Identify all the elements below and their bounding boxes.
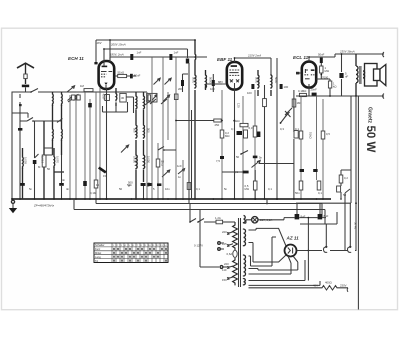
cap 1nF b [169,54,172,60]
svg-text:5n: 5n [29,187,33,191]
secondary windings [244,216,246,286]
wire antenna to switch [26,87,32,92]
tube ECH11 [99,40,115,199]
svg-text:nF: nF [345,75,349,79]
bottom connectors row field coil plugs [330,250,357,252]
svg-text:0,1MΩ: 0,1MΩ [298,89,306,93]
extra vertical [182,160,184,199]
svg-text:400Ω: 400Ω [325,281,332,285]
svg-text:0,6A: 0,6A [227,252,233,256]
tube left pin drop [99,88,101,199]
table [94,243,168,263]
svg-text:0,005: 0,005 [24,157,28,164]
svg-text:88V: 88V [218,80,223,84]
osc trimmer arrow [121,145,129,153]
pickup terminals [218,242,221,245]
EBF left small caps [222,84,226,199]
IF2 coil top [194,40,197,74]
cap left bottom [20,183,25,186]
svg-text:1n: 1n [178,175,182,179]
svg-text:1M: 1M [80,84,85,88]
svg-text:1,2A: 1,2A [215,216,221,220]
svg-text:0,3: 0,3 [280,127,284,131]
svg-text:Lang: Lang [95,255,101,259]
svg-text:30: 30 [121,96,125,100]
svg-text:pF: pF [128,184,132,188]
transformer core [239,218,241,287]
svg-text:0,1M: 0,1M [90,191,97,195]
resistor oscillator anode [105,95,110,101]
svg-text:7,5: 7,5 [216,159,220,163]
cap 100pF det [251,84,254,89]
EBF plate line [235,58,272,74]
svg-text:EBF 11: EBF 11 [217,57,233,62]
svg-text:0,1: 0,1 [231,127,235,131]
svg-text:500: 500 [133,128,137,133]
svg-text:100: 100 [284,85,289,89]
secondary to rectifier HT winding [249,228,287,246]
resistor in switch lead [187,183,191,190]
svg-text:0,5: 0,5 [326,132,330,136]
antenna coil L1 L2 [53,92,63,121]
svg-text:0,1: 0,1 [268,187,272,191]
output resistor 400ohm [320,286,348,290]
svg-text:5000: 5000 [191,77,195,84]
svg-text:5n: 5n [259,156,263,160]
cap 1nF a [130,54,133,60]
svg-text:50nF: 50nF [318,53,325,57]
wire to EBF grid [206,83,227,85]
wire left drop [12,92,26,199]
svg-text:250: 250 [215,123,220,127]
wire screen supply line [110,57,207,62]
svg-text:10n: 10n [165,187,170,191]
volume pot [241,151,248,155]
mains wiring [190,204,200,223]
IF1 windings [136,92,145,124]
output transformer [356,54,365,96]
osc grid resistor 51k [115,75,130,77]
svg-text:51kΩ: 51kΩ [118,70,125,74]
oscillator coil [115,88,118,106]
band switch contact M [35,121,39,199]
tube AZ11 rectifier [285,245,297,257]
svg-text:50 W: 50 W [364,126,376,153]
coil 0005 [22,148,25,199]
coil L3 L4 [53,121,63,155]
svg-text:4n: 4n [62,178,66,182]
svg-text:1nF: 1nF [137,51,142,55]
svg-text:50: 50 [343,193,347,197]
svg-text:AZ 11: AZ 11 [286,236,300,241]
svg-text:1M: 1M [297,101,302,105]
svg-text:ECL 11: ECL 11 [293,55,309,60]
speaker plugs [383,52,384,57]
IF3 windings [258,70,272,96]
switch row mid [146,92,148,199]
svg-text:0,1: 0,1 [318,191,322,195]
vertical pair to band switch [189,63,192,204]
svg-text:0,1: 0,1 [234,170,238,174]
junction speaker return [330,95,384,97]
title separator [357,96,359,310]
svg-text:MΩ: MΩ [325,69,329,73]
svg-text:40V: 40V [313,284,318,288]
svg-text:0,1: 0,1 [295,127,299,131]
trimmer arrows mid top [154,78,161,84]
capacitor 1nF screen decoupling [186,59,189,64]
loudspeaker [365,64,386,87]
svg-text:0,013: 0,013 [41,156,45,163]
capacitor antenna series [22,85,29,88]
svg-text:ZF=468/472kHz: ZF=468/472kHz [33,204,55,208]
svg-text:0,050: 0,050 [133,156,137,163]
wire input top [45,91,147,93]
svg-text:150: 150 [222,278,227,282]
taps [228,232,233,279]
mixer grid resistor and wires [85,92,96,199]
heater winding wires [249,269,298,275]
filter caps [297,203,320,214]
svg-text:ECH 11: ECH 11 [68,56,84,61]
right verticals [355,96,357,251]
table X marks [113,248,167,262]
fuse [216,220,223,224]
gang trimmer caps [72,95,75,100]
heater of AZ11 [288,256,298,274]
svg-text:1nF: 1nF [174,51,179,55]
variable cap arrows gang [68,95,75,101]
tube ECL11 [302,57,316,96]
svg-text:MΩ: MΩ [245,187,249,191]
IF windings mid pair [136,124,145,154]
switch S1 antenna [31,89,45,93]
cap 0,1 [243,171,249,174]
svg-text:0,3: 0,3 [249,126,253,130]
svg-text:TA: TA [95,259,98,263]
svg-text:5000: 5000 [254,77,258,84]
svg-text:50n: 50n [295,191,300,195]
svg-text:5000: 5000 [208,77,212,84]
svg-text:100: 100 [210,87,215,91]
svg-text:110: 110 [222,268,227,272]
svg-text:51kΩ: 51kΩ [233,119,240,123]
svg-text:20nF: 20nF [311,88,318,92]
speaker coupling cap [341,54,343,96]
tube EBF11 [227,58,242,199]
svg-text:50: 50 [119,187,123,191]
svg-text:220: 220 [222,230,227,234]
svg-text:5n: 5n [224,187,228,191]
cap 50nF osc [130,74,133,79]
svg-text:50: 50 [47,167,51,171]
svg-text:215V 2mA: 215V 2mA [247,54,261,58]
cathode resistor and capacitor [83,181,87,186]
svg-text:1nF: 1nF [177,164,182,168]
svg-text:51kΩ: 51kΩ [309,132,313,139]
detector cluster [243,90,255,199]
dial lamp [252,217,258,223]
svg-text:15: 15 [96,183,100,187]
svg-text:Kurz: Kurz [95,247,101,251]
svg-text:185V, 2mA: 185V, 2mA [110,53,124,57]
value labels small [29,127,347,197]
B+ output line [297,250,323,252]
ground symbol [11,200,14,203]
bus junction dots [19,198,342,200]
svg-text:0,1: 0,1 [196,187,200,191]
antenna [17,63,34,84]
IF1 trimmer box [147,93,157,102]
svg-text:0,2: 0,2 [344,176,348,180]
svg-text:15: 15 [103,174,107,178]
svg-text:50: 50 [236,155,240,159]
svg-text:0·127V: 0·127V [194,244,203,248]
svg-text:125: 125 [237,103,241,108]
wire row y121 [20,120,62,122]
svg-text:Mittel: Mittel [95,251,102,255]
ECL cathode bottom [299,93,306,96]
svg-text:220: 220 [224,262,229,266]
svg-text:50 Hz: 50 Hz [354,222,358,230]
trimmer arrows tuning [68,95,78,102]
lamp feed stub [266,199,268,204]
svg-text:40nF: 40nF [102,94,106,101]
svg-text:Schalter: Schalter [95,243,105,247]
IF windings low pair [136,154,145,199]
wire 200V 15mA supply line [96,40,195,62]
caps beside IF2 [181,80,184,86]
feedback column [301,96,323,199]
wire heater supply lines [96,199,322,218]
capacitor 0,013 column [43,121,45,199]
svg-text:4n: 4n [66,187,70,191]
AVC column [265,58,278,199]
svg-text:kΩ: kΩ [333,85,337,89]
ECL top wiring [309,54,384,57]
svg-text:235V 36mA: 235V 36mA [339,50,355,54]
svg-text:230V: 230V [340,284,347,288]
svg-text:125: 125 [222,242,227,246]
IF stage switch, resistor 60Ω and trimmers [158,57,176,199]
wire 185V 2mA supply line [104,49,188,58]
tuning gang verticals [70,95,76,199]
svg-text:200V 15mA: 200V 15mA [110,42,126,46]
svg-text:MΩ: MΩ [225,134,229,138]
resistor 0,5M [253,181,257,190]
coil 0,070 column [54,148,64,199]
transformer primary [233,222,238,285]
svg-text:Graetz: Graetz [367,107,373,124]
wire and capacitor left column [19,102,21,199]
wires coil returns to ground bus [44,148,62,160]
svg-text:100: 100 [247,91,252,95]
grid stopper cap ECL [296,72,299,75]
svg-text:0,070: 0,070 [56,156,60,163]
oscillator loop [103,102,128,112]
IF2 windings [195,70,207,199]
svg-text:200: 200 [178,87,183,91]
band switch contact left [57,119,63,123]
ground bus [12,198,331,200]
center tap wires [249,237,277,266]
svg-text:7000: 7000 [322,75,329,79]
